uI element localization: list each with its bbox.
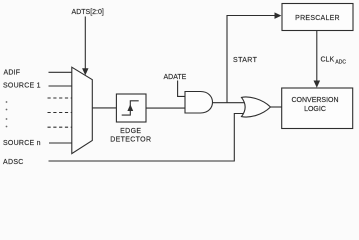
- svg-text:START: START: [233, 57, 258, 64]
- svg-text:ADTS[2:0]: ADTS[2:0]: [72, 9, 104, 16]
- svg-text:SOURCE 1: SOURCE 1: [3, 82, 41, 89]
- svg-text:SOURCE n: SOURCE n: [3, 140, 41, 147]
- svg-text:PRESCALER: PRESCALER: [295, 15, 340, 22]
- svg-text:LOGIC: LOGIC: [304, 106, 326, 113]
- svg-text:EDGE: EDGE: [120, 128, 141, 135]
- svg-text:DETECTOR: DETECTOR: [110, 137, 151, 144]
- svg-text:CLK: CLK: [321, 56, 335, 63]
- svg-text:ADSC: ADSC: [3, 159, 24, 166]
- svg-text:CONVERSION: CONVERSION: [291, 97, 338, 104]
- svg-text:ADIF: ADIF: [4, 69, 21, 76]
- svg-text:ADATE: ADATE: [164, 74, 187, 81]
- svg-text:ADC: ADC: [335, 59, 346, 65]
